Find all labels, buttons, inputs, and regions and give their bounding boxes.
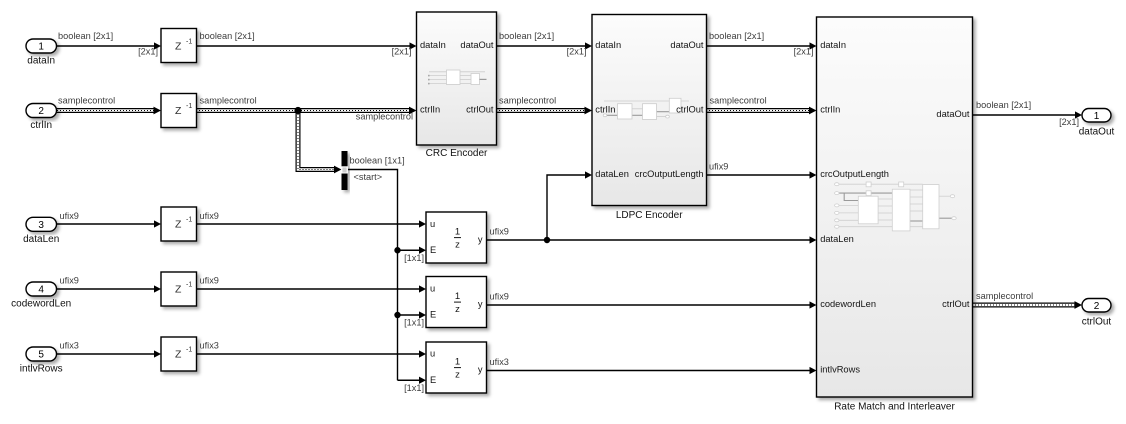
svg-text:dataIn: dataIn [420, 40, 446, 50]
wire enable end to E3 [398, 379, 421, 381]
bus CRC ctrlOut to LDPC ctrlIn [496, 108, 587, 113]
LDPC Encoder icon [603, 98, 689, 119]
svg-text:crcOutputLength: crcOutputLength [820, 169, 889, 179]
svg-text:[2x1]: [2x1] [138, 47, 158, 57]
svg-text:ctrlOut: ctrlOut [676, 105, 704, 115]
wire LDPC dataOut to RateMatch dataIn [706, 45, 811, 47]
Rate Match and Interleaver block [817, 17, 973, 397]
inport 1 dataIn [26, 39, 57, 53]
svg-text:codewordLen: codewordLen [820, 299, 876, 309]
unit delay U1 inner labels [430, 219, 483, 255]
arrow into outport2 (bus) [1075, 301, 1083, 309]
arrow into RateMatch codewordLen [810, 301, 817, 308]
arrow into selector (bus) [334, 166, 342, 174]
arrow into Delay5 [154, 350, 161, 357]
svg-text:ufix9: ufix9 [490, 292, 509, 302]
svg-text:-1: -1 [186, 103, 192, 110]
svg-text:dataOut: dataOut [460, 40, 493, 50]
delay block Z3 [161, 207, 197, 241]
wire UnitDelayEnabled3 y to RateMatch intlvRows [486, 370, 811, 372]
svg-text:ctrlOut: ctrlOut [942, 299, 970, 309]
svg-text:[1x1]: [1x1] [404, 318, 424, 328]
svg-text:samplecontrol: samplecontrol [58, 95, 115, 105]
Rate Match icon [835, 182, 957, 231]
svg-text:Z: Z [175, 105, 182, 117]
wire RateMatch dataOut to outport1 [972, 114, 1076, 116]
svg-text:dataOut: dataOut [936, 109, 969, 119]
svg-text:[1x1]: [1x1] [404, 383, 424, 393]
arrow into RateMatch crcOutputLength [810, 171, 817, 178]
svg-text:ufix9: ufix9 [200, 276, 219, 286]
svg-text:dataLen: dataLen [23, 234, 59, 245]
arrow into CRC dataIn [410, 42, 417, 49]
svg-text:-1: -1 [186, 217, 192, 224]
svg-text:codewordLen: codewordLen [11, 299, 71, 310]
svg-text:Z: Z [175, 41, 182, 53]
svg-text:samplecontrol: samplecontrol [976, 291, 1033, 301]
svg-text:2: 2 [1094, 301, 1100, 312]
bus selector bar [341, 151, 348, 190]
wire CRC dataOut to LDPC dataIn [496, 45, 586, 47]
arrow into LDPC dataIn [585, 42, 592, 49]
wire enable branch to E2 [398, 314, 421, 316]
svg-text:ufix9: ufix9 [60, 211, 79, 221]
arrow into Delay4 [154, 285, 161, 292]
svg-text:ctrlIn: ctrlIn [595, 105, 615, 115]
svg-text:[2x1]: [2x1] [567, 47, 587, 57]
arrow into Delay2 (bus) [154, 107, 162, 115]
svg-text:-1: -1 [186, 282, 192, 289]
svg-text:ctrlIn: ctrlIn [420, 105, 440, 115]
arrow into RateMatch dataIn [810, 42, 817, 49]
svg-text:boolean [2x1]: boolean [2x1] [499, 31, 554, 41]
svg-text:ufix3: ufix3 [200, 341, 219, 351]
svg-text:ufix3: ufix3 [60, 341, 79, 351]
node dataLen branch [544, 237, 550, 243]
arrow into U2 u [419, 285, 426, 292]
node enable branch E2 [394, 312, 400, 318]
svg-text:samplecontrol: samplecontrol [499, 95, 556, 105]
svg-text:E: E [430, 245, 436, 255]
delay block Z5 [161, 337, 197, 371]
svg-text:dataLen: dataLen [595, 169, 629, 179]
svg-text:boolean [2x1]: boolean [2x1] [709, 31, 764, 41]
delay block Z2 [161, 94, 197, 128]
svg-text:LDPC Encoder: LDPC Encoder [616, 210, 683, 221]
svg-text:boolean [1x1]: boolean [1x1] [350, 155, 405, 165]
svg-text:E: E [430, 310, 436, 320]
svg-text:z: z [455, 239, 460, 250]
svg-text:[2x1]: [2x1] [392, 47, 412, 57]
svg-text:intlvRows: intlvRows [20, 364, 63, 375]
wire UnitDelayEnabled2 y to RateMatch codewordLen [486, 304, 811, 306]
svg-text:dataLen: dataLen [820, 234, 854, 244]
outport 1 dataOut [1082, 109, 1111, 123]
svg-text:ufix9: ufix9 [200, 211, 219, 221]
wire Delay1 to CRC dataIn [196, 45, 411, 47]
svg-text:dataIn: dataIn [595, 40, 621, 50]
svg-text:1: 1 [455, 357, 460, 368]
arrow into LDPC dataLen [585, 171, 592, 178]
svg-text:ufix3: ufix3 [490, 357, 509, 367]
svg-text:ctrlOut: ctrlOut [1082, 316, 1112, 327]
arrow into U1 E [419, 247, 426, 254]
bus Delay2 to CRC ctrlIn [196, 108, 411, 113]
svg-text:samplecontrol: samplecontrol [356, 111, 413, 121]
arrow into Delay3 [154, 220, 161, 227]
arrow into outport1 [1075, 111, 1082, 118]
arrow into U1 u [419, 220, 426, 227]
inport 4 codewordLen [26, 282, 57, 296]
arrow into RateMatch dataLen [810, 236, 817, 243]
bus port2 to Delay2 [57, 108, 156, 113]
svg-text:dataOut: dataOut [1079, 126, 1115, 137]
wire Delay3 to UnitDelayEnabled1 u [196, 223, 420, 225]
delay block Z1 [161, 29, 197, 63]
outport 2 ctrlOut [1082, 299, 1111, 313]
svg-text:z: z [455, 369, 460, 380]
svg-text:E: E [430, 375, 436, 385]
svg-text:[2x1]: [2x1] [1059, 117, 1079, 127]
wire enable branch to E1 [398, 249, 421, 251]
svg-text:dataOut: dataOut [670, 40, 703, 50]
svg-text:Rate Match and Interleaver: Rate Match and Interleaver [834, 402, 955, 413]
wire port3 to Delay3 [57, 223, 156, 225]
wire port5 to Delay5 [57, 353, 156, 355]
svg-text:intlvRows: intlvRows [820, 365, 860, 375]
wire enable rail from selector [348, 170, 398, 381]
svg-text:z: z [455, 304, 460, 315]
arrow into U3 E [419, 377, 426, 384]
svg-text:Z: Z [175, 349, 182, 361]
wire Delay5 to UnitDelayEnabled3 u [196, 353, 420, 355]
svg-text:dataIn: dataIn [27, 55, 55, 66]
unit delay enabled U3 [426, 342, 487, 393]
svg-text:1: 1 [38, 42, 44, 53]
unit delay enabled U2 [426, 277, 487, 328]
svg-text:boolean [2x1]: boolean [2x1] [58, 31, 113, 41]
wire branch riser to LDPC dataLen [547, 175, 586, 240]
svg-text:samplecontrol: samplecontrol [710, 95, 767, 105]
RateMatch block port labels [820, 40, 970, 375]
svg-text:ctrlOut: ctrlOut [466, 105, 494, 115]
svg-text:Z: Z [175, 284, 182, 296]
svg-text:3: 3 [38, 220, 44, 231]
svg-text:ufix9: ufix9 [709, 161, 728, 171]
wire port1 to Delay1 [57, 45, 156, 47]
svg-text:y: y [478, 235, 483, 245]
bus branch down to selector [298, 110, 336, 170]
inport 3 dataLen [26, 217, 57, 231]
arrow into U3 u [419, 350, 426, 357]
LDPC Encoder block [592, 15, 707, 206]
svg-text:-1: -1 [186, 39, 192, 46]
svg-text:Z: Z [175, 219, 182, 231]
wire Delay4 to UnitDelayEnabled2 u [196, 288, 420, 290]
CRC block port labels [420, 40, 494, 115]
node enable branch E1 [394, 247, 400, 253]
CRC Encoder block [417, 12, 497, 145]
LDPC block port labels [595, 40, 704, 179]
svg-text:samplecontrol: samplecontrol [200, 95, 257, 105]
svg-text:y: y [478, 365, 483, 375]
node bus branch on samplecontrol [294, 107, 301, 114]
svg-text:2: 2 [38, 106, 44, 117]
svg-text:boolean [2x1]: boolean [2x1] [200, 31, 255, 41]
svg-text:crcOutputLength: crcOutputLength [635, 169, 704, 179]
CRC Encoder icon [428, 70, 487, 85]
svg-text:ufix9: ufix9 [60, 276, 79, 286]
svg-text:u: u [430, 284, 435, 294]
unit delay U2 inner labels [430, 284, 483, 320]
unit delay U3 inner labels [430, 349, 483, 385]
svg-text:5: 5 [38, 350, 44, 361]
svg-text:ctrlIn: ctrlIn [30, 120, 52, 131]
arrow into Delay1 [154, 42, 161, 49]
svg-text:<start>: <start> [354, 172, 383, 182]
svg-text:[1x1]: [1x1] [404, 253, 424, 263]
svg-text:ufix9: ufix9 [490, 227, 509, 237]
arrow into LDPC ctrlIn (bus) [585, 107, 593, 115]
signal labels [58, 31, 1079, 393]
svg-text:dataIn: dataIn [820, 40, 846, 50]
svg-text:CRC Encoder: CRC Encoder [426, 148, 488, 159]
wire LDPC crcOutputLength to RateMatch crcOutputLength [706, 174, 811, 176]
svg-text:4: 4 [38, 285, 44, 296]
delay block Z4 [161, 272, 197, 306]
arrow into RateMatch intlvRows [810, 367, 817, 374]
svg-text:u: u [430, 349, 435, 359]
arrow into RateMatch ctrlIn (bus) [809, 107, 817, 115]
svg-text:[2x1]: [2x1] [794, 47, 814, 57]
wire port4 to Delay4 [57, 288, 156, 290]
svg-text:y: y [478, 299, 483, 309]
svg-text:u: u [430, 219, 435, 229]
svg-text:1: 1 [455, 227, 460, 238]
bus LDPC ctrlOut to RateMatch ctrlIn [706, 108, 811, 113]
svg-text:1: 1 [1094, 111, 1100, 122]
arrow into CRC ctrlIn (bus) [409, 107, 417, 115]
arrow into U2 E [419, 311, 426, 318]
svg-text:1: 1 [455, 291, 460, 302]
svg-text:boolean [2x1]: boolean [2x1] [976, 100, 1031, 110]
bus RateMatch ctrlOut to outport2 [972, 303, 1077, 308]
inport 5 intlvRows [26, 347, 57, 361]
unit delay enabled U1 [426, 212, 487, 263]
inport 2 ctrlIn [26, 104, 57, 118]
svg-text:ctrlIn: ctrlIn [820, 105, 840, 115]
delay glyphs [175, 39, 192, 361]
wire UnitDelayEnabled1 y to RateMatch dataLen [486, 239, 811, 241]
svg-text:-1: -1 [186, 347, 192, 354]
